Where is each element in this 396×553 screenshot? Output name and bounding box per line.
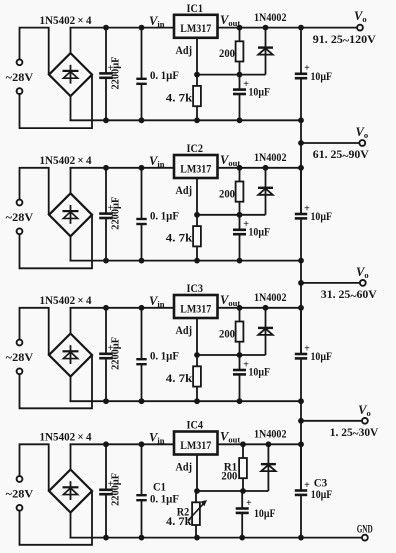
resistor 4.7k stage 2 xyxy=(166,215,201,261)
svg-text:1N5402 × 4: 1N5402 × 4 xyxy=(40,13,92,27)
svg-text:1. 25~30V: 1. 25~30V xyxy=(330,425,379,440)
capacitor 0.1uF stage 1 xyxy=(136,28,179,121)
svg-text:91. 25~120V: 91. 25~120V xyxy=(313,32,376,47)
svg-text:1N5402 × 4: 1N5402 × 4 xyxy=(40,430,92,444)
resistor 4.7k stage 3 xyxy=(166,355,201,401)
label 1N5402x4 stage 1 xyxy=(40,13,92,27)
label Vo output 2 xyxy=(356,125,369,140)
wire bridge + output to Vin rail stage 3 xyxy=(70,308,72,334)
regulator IC1 LM317 xyxy=(174,15,218,38)
label 1N4002 stage 3 xyxy=(254,290,287,304)
right rail segment stage1 bottom to stage2 cap xyxy=(300,120,302,214)
terminal Vo output 1 xyxy=(357,25,363,31)
svg-text:10µF: 10µF xyxy=(249,365,271,379)
svg-text:IC3: IC3 xyxy=(187,283,204,295)
wire Vout rail stage 1 xyxy=(218,27,358,29)
svg-text:+: + xyxy=(304,480,310,491)
junction dots Vout rail stage 3 xyxy=(237,305,304,311)
wire AC top: terminal to bridge left vertex stage 3 xyxy=(20,308,49,355)
svg-text:+: + xyxy=(304,343,310,354)
label IC2 xyxy=(187,143,204,155)
wire AC top: terminal to bridge left vertex stage 4 xyxy=(20,444,49,491)
junction dots Adj line stage 2 xyxy=(194,212,242,218)
label Vout stage 4 xyxy=(220,430,240,445)
label Adj stage 3 xyxy=(176,325,193,337)
label 1N4002 stage 1 xyxy=(254,10,287,24)
svg-text:2200µF: 2200µF xyxy=(110,56,122,89)
terminal GND xyxy=(362,535,368,541)
svg-text:0. 1µF: 0. 1µF xyxy=(150,349,179,363)
wire Vo tap 4 xyxy=(301,420,362,422)
capacitor C3 10uF output stage 4 xyxy=(295,444,333,537)
wire bridge - output to bottom rail stage 1 xyxy=(70,96,72,120)
capacitor 10uF Adj stage 1 xyxy=(233,75,270,121)
svg-text:GND: GND xyxy=(357,523,373,535)
protection diode 1N4002 stage 4 xyxy=(261,444,276,491)
wire Vin top rail stage 2 xyxy=(70,167,175,169)
label ~28V stage 2 xyxy=(6,210,34,224)
label Adj stage 1 xyxy=(176,45,193,57)
wire Vout rail stage 4 xyxy=(218,443,302,445)
svg-text:IC1: IC1 xyxy=(187,3,204,15)
label Vout stage 3 xyxy=(220,293,240,308)
wire Adj pin stage 2 xyxy=(196,178,198,215)
svg-text:200: 200 xyxy=(221,469,237,483)
bridge rectifier 1N5402x4 stage 2 xyxy=(49,193,92,236)
capacitor 10uF output stage 3 xyxy=(295,308,332,401)
svg-text:Adj: Adj xyxy=(176,45,193,57)
protection diode 1N4002 stage 3 xyxy=(258,308,273,355)
terminal AC input bottom stage 2 xyxy=(17,228,23,234)
label Vo output 4 xyxy=(358,403,371,418)
wire bottom rail stage 2 xyxy=(70,260,302,262)
capacitor 0.1uF stage 2 xyxy=(136,168,179,261)
svg-text:LM317: LM317 xyxy=(180,21,211,35)
protection diode 1N4002 stage 1 xyxy=(258,28,273,75)
wire Adj node line stage 4 xyxy=(197,490,268,492)
label Vo output 3 xyxy=(356,265,369,280)
svg-text:10µF: 10µF xyxy=(311,349,333,363)
svg-text:1N4002: 1N4002 xyxy=(254,10,287,24)
svg-text:~28V: ~28V xyxy=(6,70,34,84)
label range 91.25~120V xyxy=(313,32,376,47)
junction dot Vo tap 3 xyxy=(298,280,304,286)
svg-text:~28V: ~28V xyxy=(6,210,34,224)
junction dots Adj line stage 4 xyxy=(194,488,246,494)
capacitor 10uF Adj stage 3 xyxy=(233,355,270,401)
capacitor 2200uF filter stage 2 xyxy=(99,168,122,261)
wire Adj node line stage 1 xyxy=(197,74,266,76)
capacitor 0.1uF stage 3 xyxy=(136,308,179,401)
svg-text:1N4002: 1N4002 xyxy=(254,150,287,164)
svg-text:200: 200 xyxy=(219,186,235,200)
svg-text:+: + xyxy=(246,498,252,509)
svg-text:61. 25~90V: 61. 25~90V xyxy=(313,147,369,162)
junction dots 0.1uF stage 1 xyxy=(139,25,145,124)
svg-text:10µF: 10µF xyxy=(311,487,333,501)
junction dots bottom rail stage 1 xyxy=(194,117,304,123)
wire bottom rail stage 4 xyxy=(70,537,302,539)
svg-text:1N4002: 1N4002 xyxy=(254,290,287,304)
resistor 200 stage 1 xyxy=(219,28,243,75)
wire Adj node line stage 2 xyxy=(197,214,266,216)
label IC4 xyxy=(187,420,204,432)
svg-text:4. 7k: 4. 7k xyxy=(166,371,193,385)
junction dots Vout rail stage 1 xyxy=(237,25,304,31)
svg-text:LM317: LM317 xyxy=(180,161,211,175)
svg-text:1N4002: 1N4002 xyxy=(254,427,287,441)
wire Vo tap 3 xyxy=(301,282,360,284)
label ~28V stage 1 xyxy=(6,70,34,84)
junction dots 0.1uF stage 2 xyxy=(139,165,145,264)
wire AC return: bottom terminal to bridge right vertex stage 4 xyxy=(20,491,93,545)
svg-text:10µF: 10µF xyxy=(249,225,271,239)
junction dots bottom rail stage 2 xyxy=(194,258,304,264)
junction dots 2200uF stage 1 xyxy=(103,25,109,124)
wire AC top: terminal to bridge left vertex stage 2 xyxy=(20,168,49,215)
junction dots Vout rail stage 2 xyxy=(237,165,304,171)
svg-text:1N5402 × 4: 1N5402 × 4 xyxy=(40,153,92,167)
junction dots bottom rail stage 4 xyxy=(194,535,304,541)
wire bridge - output to bottom rail stage 4 xyxy=(70,513,72,538)
label 1N4002 stage 4 xyxy=(254,427,287,441)
label Adj stage 2 xyxy=(176,185,193,197)
label IC1 xyxy=(187,3,204,15)
junction dots 2200uF stage 3 xyxy=(103,305,109,404)
terminal AC input top stage 1 xyxy=(17,59,23,65)
svg-text:10µF: 10µF xyxy=(254,506,276,520)
wire Adj pin stage 4 xyxy=(196,455,198,492)
junction dots 2200uF stage 2 xyxy=(103,165,109,264)
svg-text:0. 1µF: 0. 1µF xyxy=(150,68,179,82)
regulator IC4 LM317 xyxy=(174,432,218,455)
capacitor 0.1uF stage 4 xyxy=(136,444,179,537)
terminal AC input top stage 3 xyxy=(17,340,23,346)
wire AC top: terminal to bridge left vertex stage 1 xyxy=(20,28,49,75)
junction dots Adj line stage 3 xyxy=(194,352,242,358)
svg-text:200: 200 xyxy=(219,46,235,60)
junction dots 0.1uF stage 3 xyxy=(139,305,145,404)
terminal AC input bottom stage 4 xyxy=(17,505,23,511)
regulator IC2 LM317 xyxy=(174,155,218,178)
terminal AC input top stage 4 xyxy=(17,476,23,482)
junction dot Vo tap 4 xyxy=(298,418,304,424)
wire Vout rail stage 2 xyxy=(218,167,302,169)
capacitor 10uF output stage 2 xyxy=(295,168,332,261)
wire Vin top rail stage 3 xyxy=(70,307,175,309)
junction dot Vo tap 2 xyxy=(298,140,304,146)
label 1N5402x4 stage 4 xyxy=(40,430,92,444)
wire bridge + output to Vin rail stage 1 xyxy=(70,28,72,53)
wire bridge - output to bottom rail stage 2 xyxy=(70,236,72,260)
label ~28V stage 3 xyxy=(6,350,34,364)
right rail segment stage3 bottom to stage4 cap xyxy=(300,401,302,490)
svg-text:10µF: 10µF xyxy=(249,84,271,98)
label ~28V stage 4 xyxy=(6,487,34,501)
wire AC return: bottom terminal to bridge right vertex stage 2 xyxy=(20,215,93,268)
svg-text:Adj: Adj xyxy=(176,185,193,197)
label Vo output 1 xyxy=(354,9,367,24)
svg-text:~28V: ~28V xyxy=(6,487,34,501)
right rail segment stage2 bottom to stage3 cap xyxy=(300,261,302,354)
wire Adj node line stage 3 xyxy=(197,354,266,356)
svg-text:0. 1µF: 0. 1µF xyxy=(150,208,179,222)
svg-text:+: + xyxy=(304,203,310,214)
wire Adj pin stage 3 xyxy=(196,318,198,355)
label GND xyxy=(357,523,373,535)
junction dots Vout rail stage 4 xyxy=(240,441,304,447)
wire Vin top rail stage 4 xyxy=(70,443,175,445)
wire Adj pin stage 1 xyxy=(196,38,198,75)
label 1N4002 stage 2 xyxy=(254,150,287,164)
svg-text:2200µF: 2200µF xyxy=(110,337,122,370)
junction dots 0.1uF stage 4 xyxy=(139,441,145,540)
wire bottom rail stage 3 xyxy=(70,400,302,402)
protection diode 1N4002 stage 2 xyxy=(258,168,273,215)
wire Vo tap 2 xyxy=(301,142,360,144)
terminal AC input bottom stage 1 xyxy=(17,88,23,94)
wire AC return: bottom terminal to bridge right vertex stage 1 xyxy=(20,75,93,129)
label Vin stage 4 xyxy=(149,431,165,446)
svg-text:200: 200 xyxy=(219,326,235,340)
svg-text:Adj: Adj xyxy=(176,462,193,474)
wire Vout rail stage 3 xyxy=(218,307,302,309)
terminal Vo output 3 xyxy=(360,280,366,286)
svg-text:31. 25~60V: 31. 25~60V xyxy=(321,287,377,302)
capacitor 2200uF filter stage 1 xyxy=(99,28,122,121)
label IC3 xyxy=(187,283,204,295)
svg-text:2200µF: 2200µF xyxy=(110,196,122,229)
resistor 200 stage 3 xyxy=(219,308,243,355)
resistor 200 stage 2 xyxy=(219,168,243,215)
resistor 4.7k stage 1 xyxy=(166,75,201,121)
svg-text:LM317: LM317 xyxy=(180,301,211,315)
bridge rectifier 1N5402x4 stage 4 xyxy=(49,470,92,513)
label Vout stage 1 xyxy=(220,13,240,28)
svg-text:4. 7k: 4. 7k xyxy=(166,90,193,104)
capacitor 2200uF filter stage 3 xyxy=(99,308,122,401)
svg-text:+: + xyxy=(304,63,310,74)
regulator IC3 LM317 xyxy=(174,295,218,318)
wire bottom rail stage 1 xyxy=(70,119,302,121)
resistor R1 200 stage 4 xyxy=(221,444,247,491)
terminal AC input bottom stage 3 xyxy=(17,368,23,374)
junction dots 2200uF stage 4 xyxy=(103,441,109,540)
capacitor 2200uF filter stage 4 xyxy=(99,444,122,537)
label range 1. 25~30V xyxy=(330,425,379,440)
svg-text:4. 7k: 4. 7k xyxy=(166,514,192,528)
wire bridge - output to bottom rail stage 3 xyxy=(70,377,72,402)
label range 61. 25~90V xyxy=(313,147,369,162)
wire bottom rail to GND terminal xyxy=(301,537,362,539)
svg-text:10µF: 10µF xyxy=(311,69,333,83)
label Vin stage 2 xyxy=(149,154,165,169)
svg-text:0. 1µF: 0. 1µF xyxy=(150,492,179,506)
wire bridge + output to Vin rail stage 2 xyxy=(70,168,72,194)
wire Vin top rail stage 1 xyxy=(70,27,175,29)
bridge rectifier 1N5402x4 stage 1 xyxy=(49,53,92,96)
bridge rectifier 1N5402x4 stage 3 xyxy=(49,334,92,377)
label 1N5402x4 stage 3 xyxy=(40,293,92,307)
wire bridge + output to Vin rail stage 4 xyxy=(70,444,72,469)
junction dots Adj line stage 1 xyxy=(194,72,242,78)
svg-text:IC4: IC4 xyxy=(187,420,204,432)
label range 31. 25~60V xyxy=(321,287,377,302)
label Adj stage 4 xyxy=(176,462,193,474)
svg-text:~28V: ~28V xyxy=(6,350,34,364)
capacitor 10uF output stage 1 xyxy=(295,28,332,121)
terminal Vo output 2 xyxy=(359,140,365,146)
svg-text:1N5402 × 4: 1N5402 × 4 xyxy=(40,293,92,307)
label Vin stage 3 xyxy=(149,294,165,309)
resistor R2 4.7k stage 4 xyxy=(166,491,207,538)
label Vin stage 1 xyxy=(149,14,165,29)
svg-text:LM317: LM317 xyxy=(180,438,211,452)
svg-text:2200µF: 2200µF xyxy=(110,473,122,506)
terminal AC input top stage 2 xyxy=(17,200,23,206)
label 1N5402x4 stage 2 xyxy=(40,153,92,167)
svg-text:Adj: Adj xyxy=(176,325,193,337)
label Vout stage 2 xyxy=(220,153,240,168)
terminal Vo output 4 xyxy=(362,418,368,424)
svg-text:4. 7k: 4. 7k xyxy=(166,231,193,245)
capacitor 10uF Adj stage 2 xyxy=(233,215,270,261)
wire AC return: bottom terminal to bridge right vertex stage 3 xyxy=(20,355,93,408)
svg-text:10µF: 10µF xyxy=(311,209,333,223)
junction dots bottom rail stage 3 xyxy=(194,398,304,404)
svg-text:IC2: IC2 xyxy=(187,143,204,155)
capacitor 10uF Adj stage 4 xyxy=(236,491,276,538)
